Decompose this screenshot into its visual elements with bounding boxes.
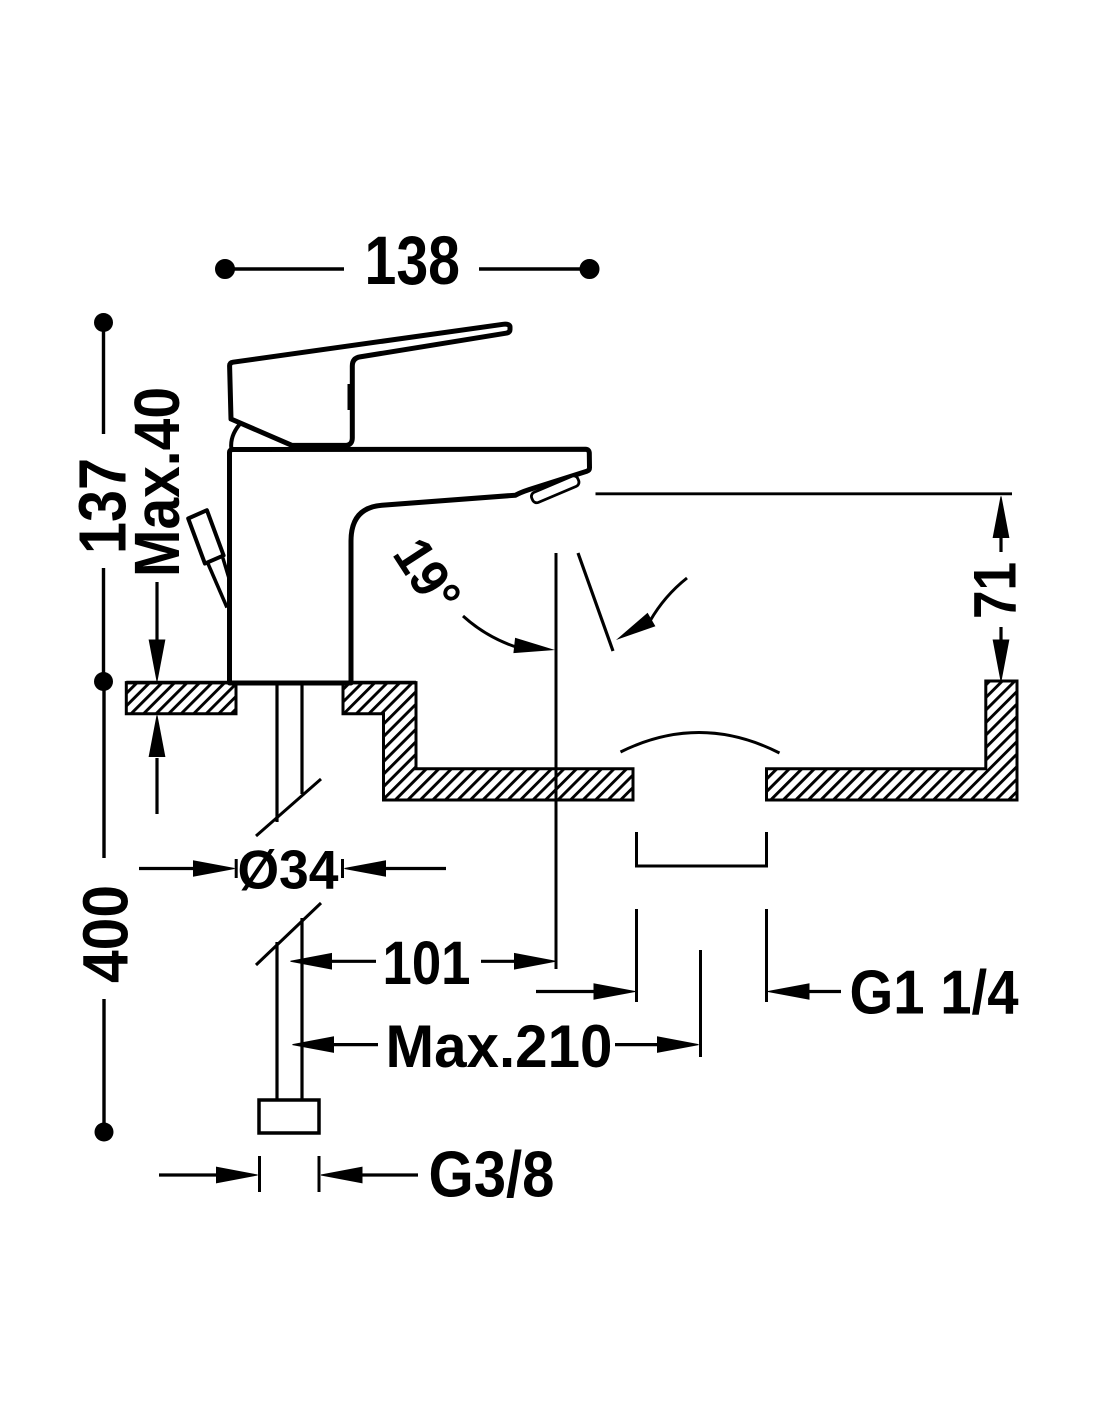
- spout outlet reference line: [596, 492, 1013, 495]
- svg-text:G3/8: G3/8: [429, 1138, 555, 1211]
- svg-text:Max.210: Max.210: [386, 1013, 613, 1080]
- Max.40 down arrow: [149, 582, 165, 814]
- dimension Max.210: [293, 1037, 699, 1053]
- extension line drain left: [635, 909, 638, 1002]
- spout aerator: [530, 474, 580, 504]
- svg-text:400: 400: [70, 885, 142, 983]
- faucet body and spout: [230, 449, 590, 683]
- pop-up rod knob: [188, 510, 223, 563]
- faucet supply pipe upper: [256, 684, 321, 1101]
- countertop left slab: [126, 683, 236, 714]
- 19 degree arc right with arrowhead: [616, 613, 655, 640]
- dimension 138 dots and line: [216, 260, 600, 279]
- extension line drain axis: [699, 950, 702, 1057]
- supply pipe nut: [259, 1100, 319, 1133]
- pop-up rod stem: [208, 558, 230, 608]
- svg-text:71: 71: [962, 562, 1029, 619]
- cartridge dome arc: [231, 425, 239, 449]
- dimension 137 dots and line: [94, 313, 113, 691]
- sink right-of-hole section: [343, 683, 633, 800]
- spout axis vertical line: [555, 553, 558, 969]
- pipe break line 1: [256, 779, 321, 836]
- faucet handle: [230, 324, 510, 445]
- 19 degree tilted line: [578, 553, 613, 651]
- drain tailpipe bracket: [637, 832, 767, 866]
- extension line drain right: [765, 909, 768, 1002]
- pipe break line 2: [256, 903, 321, 965]
- drain dome arc: [621, 732, 780, 753]
- dimension G3/8: [159, 1156, 418, 1192]
- dimension 101: [291, 954, 556, 970]
- svg-text:138: 138: [365, 222, 461, 299]
- svg-text:101: 101: [383, 929, 471, 997]
- svg-text:G1 1/4: G1 1/4: [850, 959, 1019, 1028]
- svg-text:Ø34: Ø34: [238, 839, 339, 901]
- dimension O34: [139, 859, 446, 878]
- faucet supply pipe lower: [275, 942, 278, 1101]
- dimension 71: [993, 497, 1009, 682]
- dimension 400 dot and lines: [95, 1123, 114, 1142]
- countertop top surface line: [126, 681, 416, 685]
- sink right wall section: [767, 681, 1018, 800]
- handle seam mark: [348, 384, 355, 410]
- svg-text:Max.40: Max.40: [121, 387, 193, 577]
- dimension G1 1/4: [536, 984, 841, 999]
- 19 degree arc left with arrowhead: [463, 616, 516, 647]
- Max.40 up arrow: [155, 758, 158, 814]
